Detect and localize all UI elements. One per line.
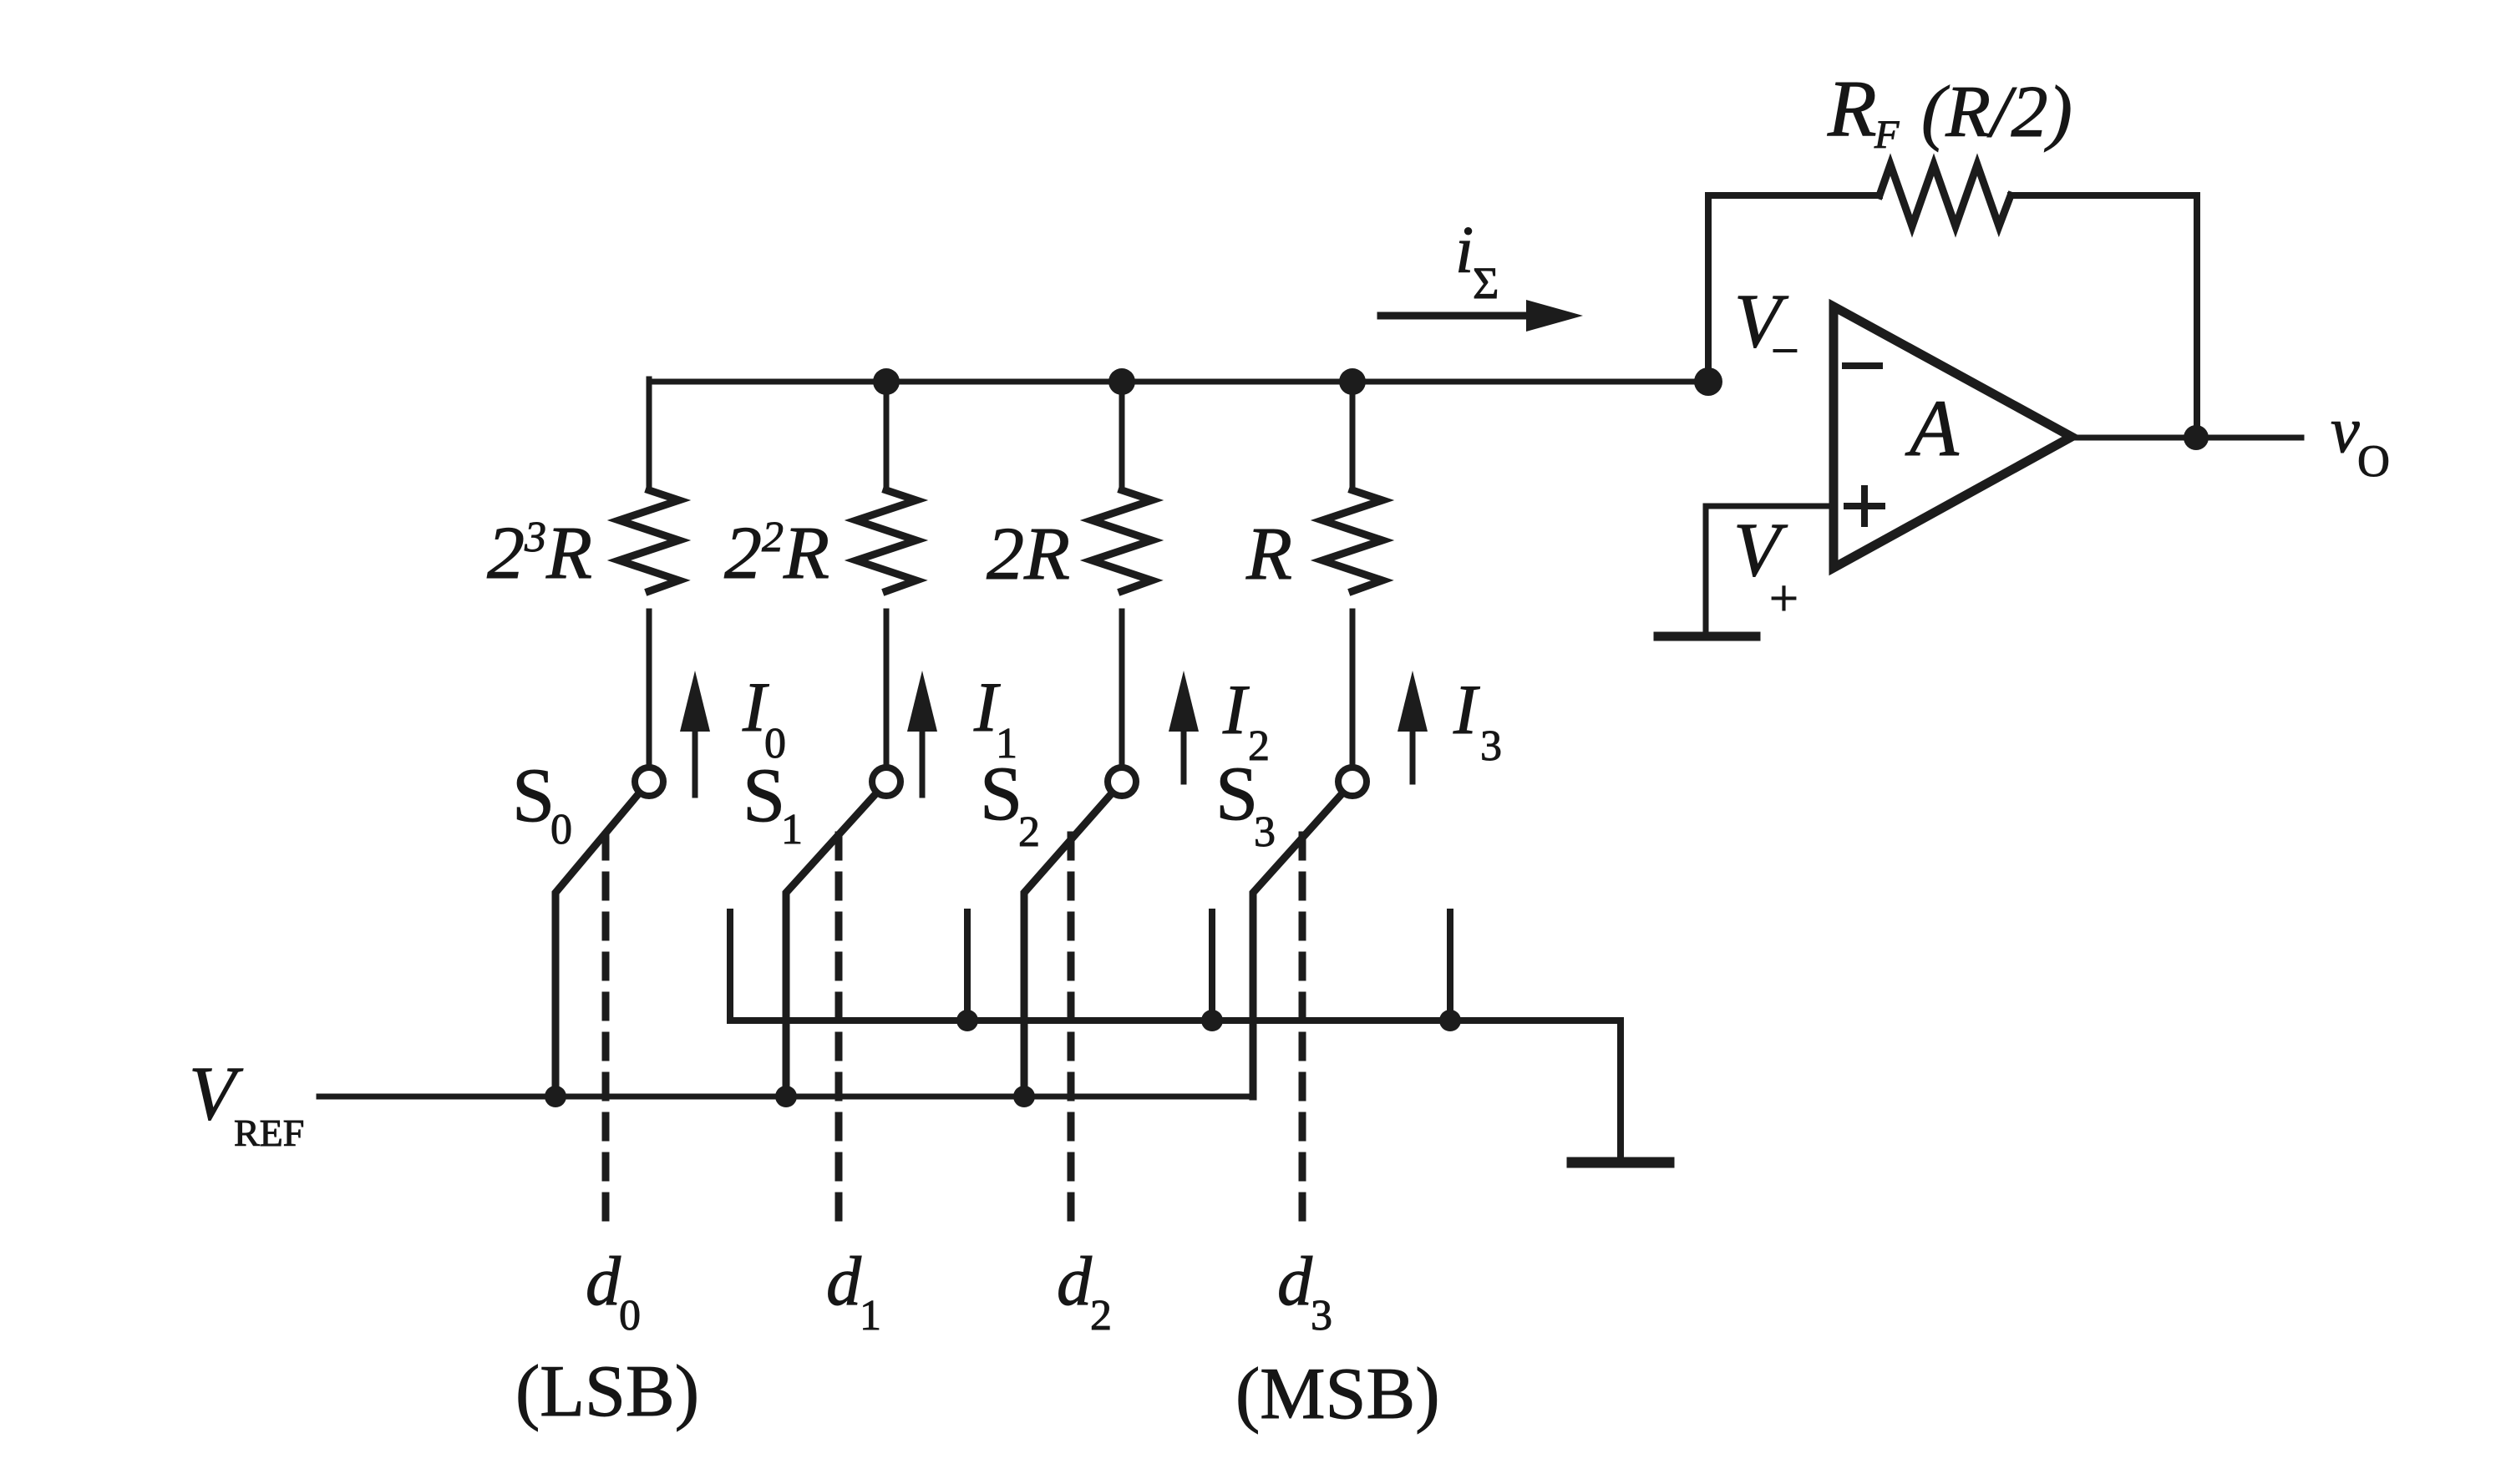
wire S2 ground contact stub xyxy=(1209,912,1215,1021)
svg-text:REF: REF xyxy=(234,1112,304,1154)
wire S3 ground contact stub xyxy=(1447,912,1453,1021)
wire non-inverting input to ground xyxy=(1706,506,1834,632)
svg-text:2R: 2R xyxy=(987,513,1070,595)
svg-text:S: S xyxy=(980,751,1022,836)
dashed control line d1 xyxy=(835,835,843,1229)
node summing junction at R xyxy=(1339,368,1366,395)
svg-text:0: 0 xyxy=(619,1292,641,1340)
svg-text:3: 3 xyxy=(1480,722,1502,770)
svg-text:d: d xyxy=(826,1243,862,1320)
svg-text:−: − xyxy=(1771,323,1799,378)
node ground bus at S1 stub xyxy=(956,1010,978,1031)
node summing junction at 2^2R xyxy=(873,368,900,395)
dashed control line d2 xyxy=(1068,835,1075,1229)
ground symbol at non-inverting input xyxy=(1658,632,1756,641)
wire bottom lead of resistor 2^3R xyxy=(647,611,652,765)
svg-text:S: S xyxy=(743,752,785,838)
svg-text:Σ: Σ xyxy=(1473,258,1499,308)
node summing junction at 2R xyxy=(1108,368,1135,395)
node VREF at S2 xyxy=(1013,1086,1035,1107)
resistor RF zigzag xyxy=(1879,165,2011,226)
wire top lead of resistor R xyxy=(1350,382,1356,490)
svg-text:S: S xyxy=(512,752,555,838)
wire ground bus with S0 contact stub xyxy=(730,912,1621,1158)
current arrow I2 xyxy=(1169,671,1199,782)
svg-text:d: d xyxy=(1277,1243,1313,1320)
node VREF at S1 xyxy=(775,1086,797,1107)
wire bottom lead of resistor 2^2R xyxy=(884,611,890,765)
op-amp A triangle xyxy=(1834,306,2072,568)
svg-text:S: S xyxy=(1215,751,1258,836)
node VREF at S0 xyxy=(545,1086,566,1107)
svg-text:I: I xyxy=(1453,671,1480,749)
switch S1 arm and wire to VREF xyxy=(786,794,875,1097)
node inverting input V- xyxy=(1694,367,1722,396)
switch S1 pivot circle xyxy=(872,767,900,796)
switch S2 pivot circle xyxy=(1108,767,1136,796)
svg-text:d: d xyxy=(586,1243,621,1320)
current arrow I0 xyxy=(680,671,710,795)
wire bottom lead of resistor 2R xyxy=(1119,611,1125,765)
svg-text:(R/2): (R/2) xyxy=(1921,72,2072,153)
wire top lead of resistor 2R xyxy=(1119,382,1125,490)
switch S3 pivot circle xyxy=(1338,767,1367,796)
svg-text:F: F xyxy=(1874,113,1900,157)
current arrow I1 xyxy=(907,671,937,795)
op-amp plus input sign xyxy=(1847,489,1882,524)
wire summing bus to inverting input xyxy=(649,379,1708,385)
svg-text:1: 1 xyxy=(860,1292,881,1340)
resistor 2^2R zigzag xyxy=(856,490,916,591)
switch S0 pivot circle xyxy=(635,767,663,796)
dashed control line d3 xyxy=(1299,835,1306,1229)
svg-text:(LSB): (LSB) xyxy=(515,1351,699,1432)
svg-text:R: R xyxy=(1245,513,1292,595)
wire top lead of resistor 2^2R xyxy=(884,382,890,490)
wire VREF rail xyxy=(319,1094,1253,1100)
svg-text:2: 2 xyxy=(1018,808,1040,856)
svg-text:i: i xyxy=(1455,214,1474,287)
svg-text:0: 0 xyxy=(550,806,572,853)
node ground bus at S2 stub xyxy=(1201,1010,1223,1031)
wire top lead of resistor 2^3R xyxy=(647,379,652,490)
svg-text:1: 1 xyxy=(781,806,803,853)
svg-text:A: A xyxy=(1905,383,1959,473)
resistor 2R zigzag xyxy=(1092,490,1152,591)
current arrow i-sigma xyxy=(1381,300,1583,332)
wire feedback right segment down to output xyxy=(2011,195,2197,438)
svg-text:2: 2 xyxy=(1090,1292,1112,1340)
wire S1 ground contact stub xyxy=(964,912,971,1021)
svg-text:O: O xyxy=(2357,436,2390,486)
node output xyxy=(2184,425,2209,450)
resistor 2^3R zigzag xyxy=(619,490,679,591)
svg-text:v: v xyxy=(2331,393,2360,466)
op-amp minus input sign xyxy=(1845,362,1879,369)
wire bottom lead of resistor R xyxy=(1350,611,1356,765)
svg-text:(MSB): (MSB) xyxy=(1235,1354,1440,1435)
current arrow I3 xyxy=(1398,671,1428,782)
node ground bus at S3 stub xyxy=(1439,1010,1461,1031)
svg-text:R: R xyxy=(1827,63,1877,153)
svg-text:+: + xyxy=(1769,570,1798,627)
wire feedback left vertical from inverting node xyxy=(1708,195,1879,382)
svg-text:3: 3 xyxy=(1254,808,1276,856)
svg-text:I: I xyxy=(1222,671,1250,749)
dashed control line d0 xyxy=(602,835,610,1229)
svg-text:d: d xyxy=(1057,1243,1093,1320)
switch S0 arm and wire to VREF xyxy=(555,794,638,1097)
resistor R zigzag xyxy=(1322,490,1382,591)
switch S3 arm and wire to VREF corner xyxy=(1253,794,1342,1097)
switch S2 arm and wire to VREF xyxy=(1024,794,1111,1097)
svg-text:3: 3 xyxy=(1311,1292,1332,1340)
wire op-amp output xyxy=(2072,435,2301,441)
ground symbol of digital bus xyxy=(1572,1157,1669,1168)
